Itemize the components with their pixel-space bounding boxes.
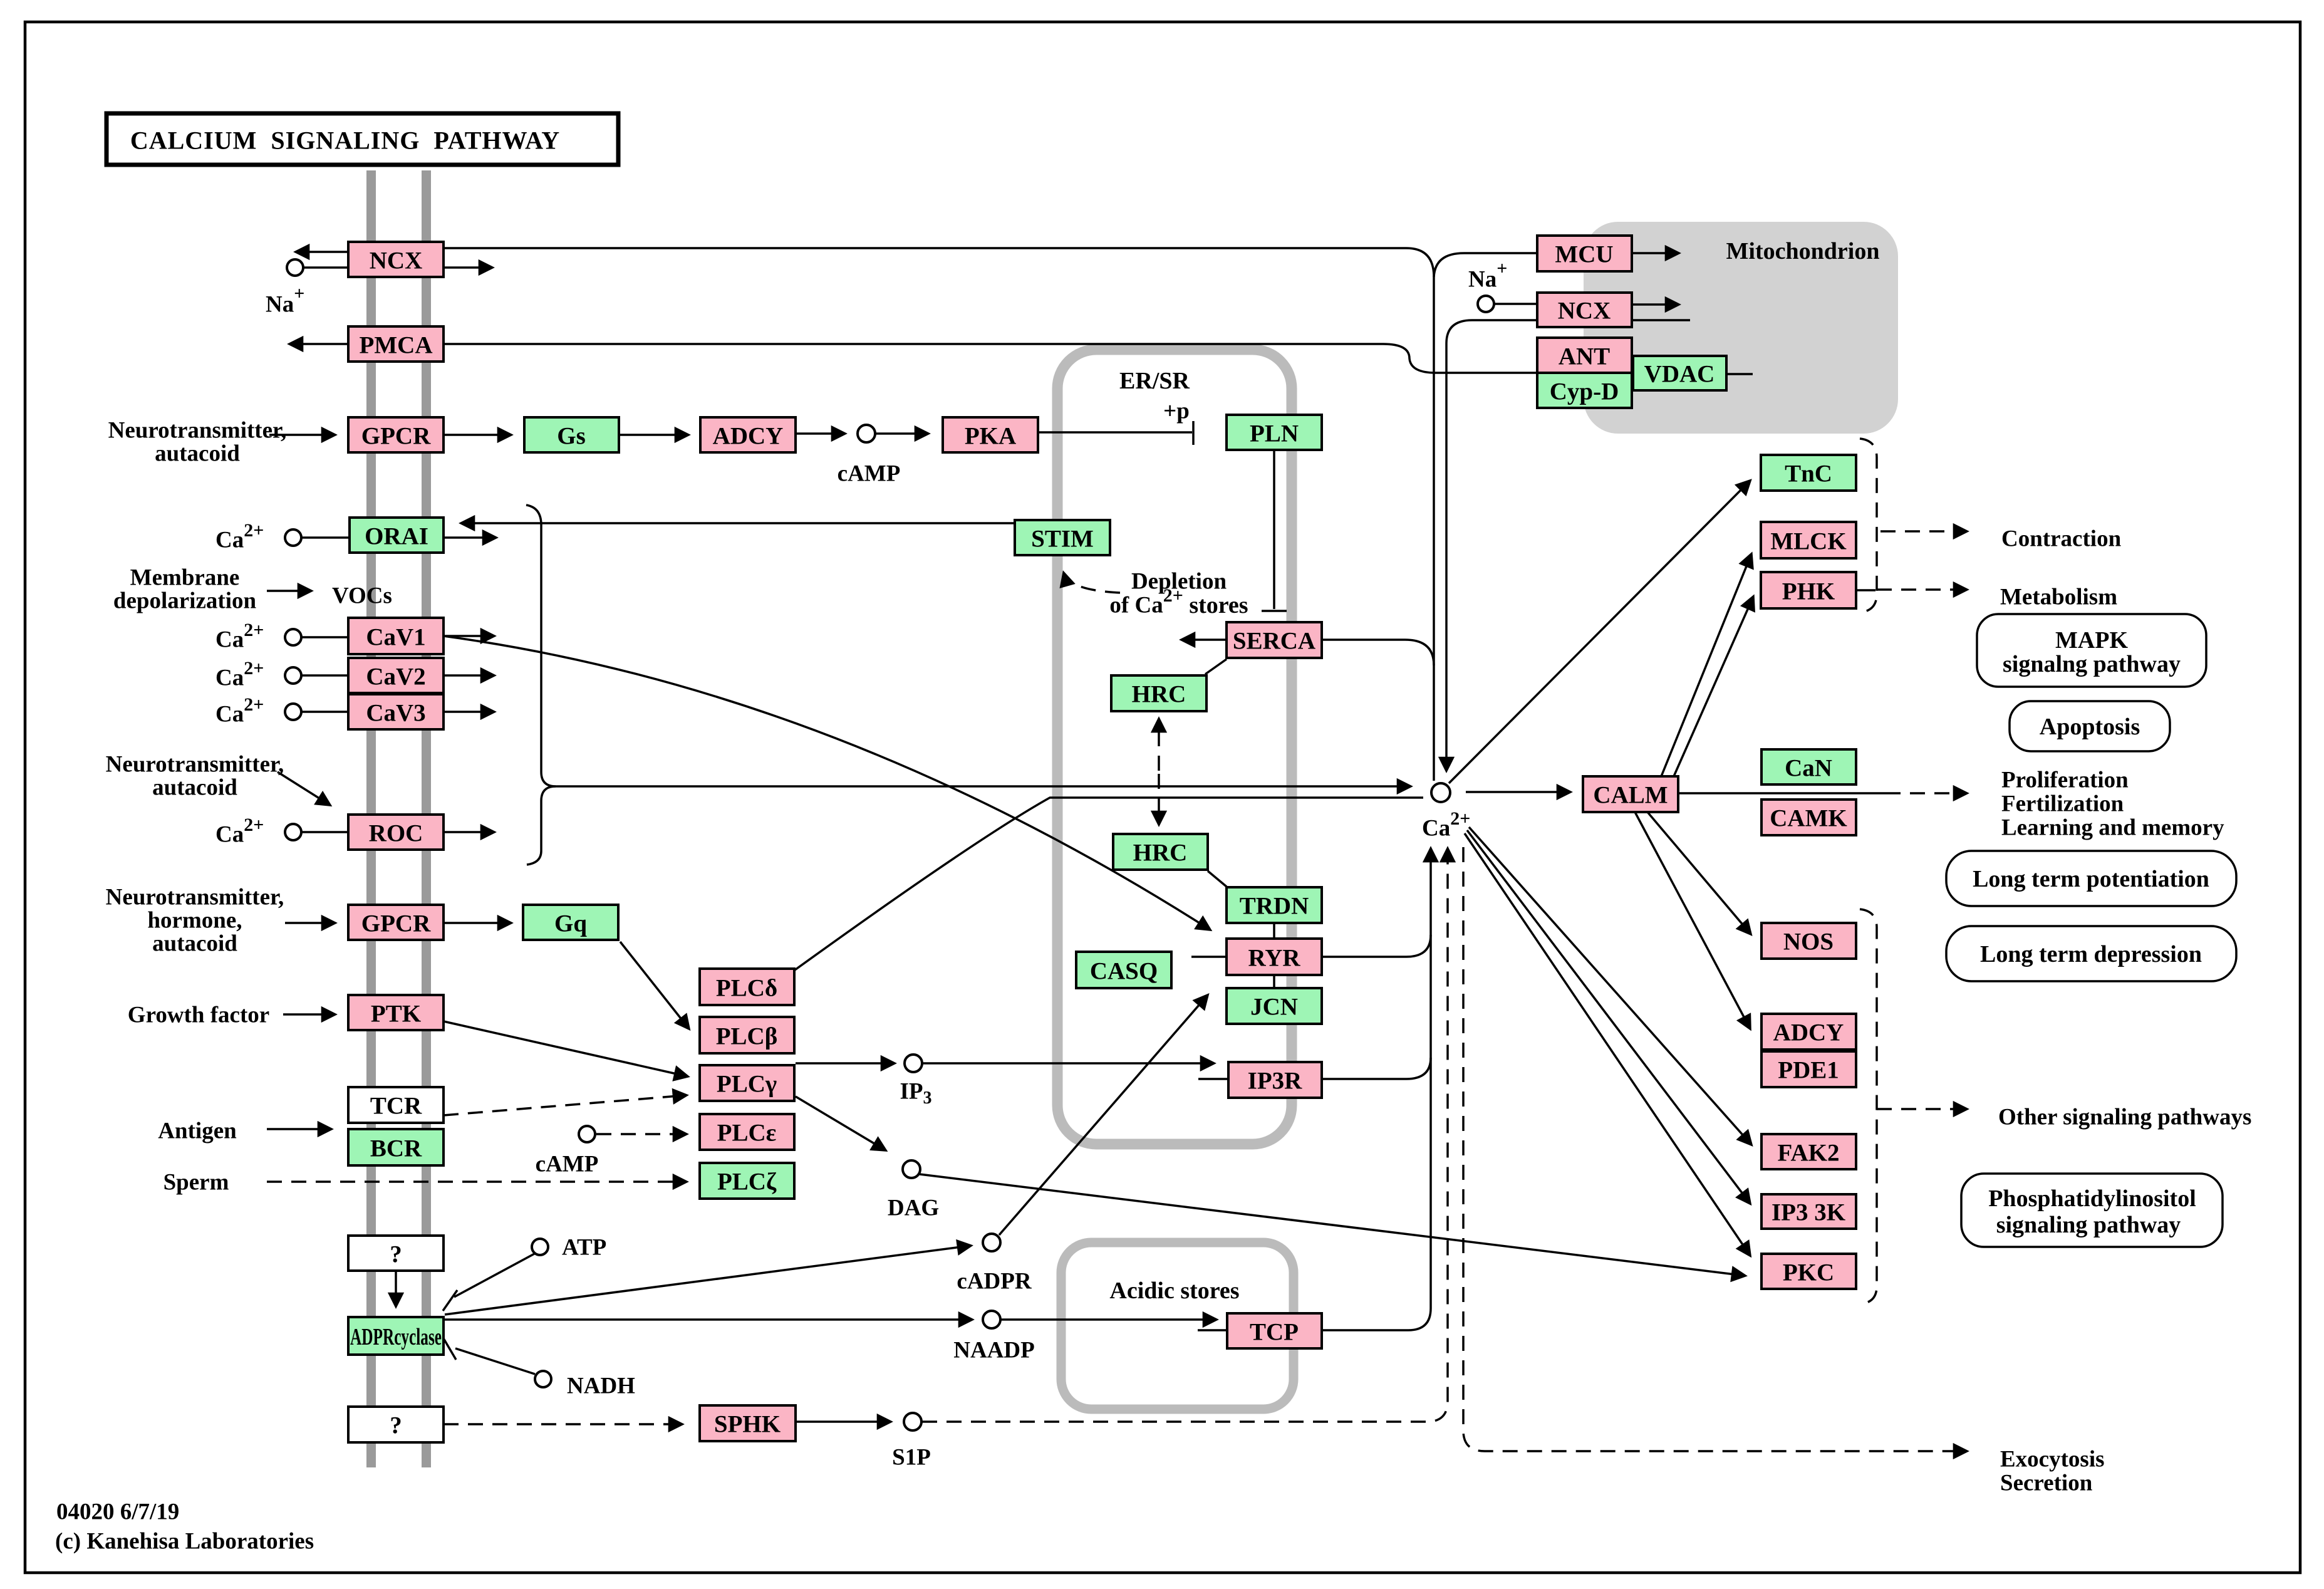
title box	[106, 113, 618, 165]
gene box IP3 3K	[1761, 1194, 1856, 1229]
svg-text:CAMK: CAMK	[1770, 805, 1847, 832]
gene box HRC upper	[1111, 675, 1206, 711]
svg-text:Ca2+: Ca2+	[215, 815, 264, 848]
svg-text:Sperm: Sperm	[163, 1170, 229, 1196]
gene box TRDN	[1227, 887, 1322, 923]
svg-text:TnC: TnC	[1785, 461, 1832, 487]
wire Ca circle into ORAI	[301, 536, 350, 539]
svg-text:Ca2+: Ca2+	[1422, 808, 1470, 841]
svg-text:Acidic stores: Acidic stores	[1109, 1278, 1239, 1304]
wire curly brace upper	[541, 772, 556, 786]
svg-text:NCX: NCX	[1558, 298, 1611, 325]
wire contraction bracket dashed	[1860, 439, 1877, 612]
gene box HRC lower	[1113, 834, 1208, 870]
svg-text:PKC: PKC	[1783, 1259, 1834, 1286]
gene box SPHK	[700, 1405, 796, 1441]
pathway box MAPK signaling	[1977, 614, 2206, 687]
wire HRC dashed link upper arrow	[1158, 719, 1160, 771]
svg-text:VOCs: VOCs	[332, 583, 392, 609]
wire IP3 circle to IP3R	[922, 1062, 1214, 1065]
gene box ADCY upper	[700, 417, 796, 452]
gene box RYR	[1227, 939, 1322, 975]
wire dashed arrow to Contraction	[1880, 530, 1967, 533]
wire PMCA return line to ANT/Cyp-D	[444, 344, 1537, 373]
svg-text:autacoid: autacoid	[152, 931, 237, 957]
svg-text:Phosphatidylinositol: Phosphatidylinositol	[1988, 1185, 2196, 1212]
gene box PMCA	[348, 326, 444, 362]
gene box PLN	[1227, 415, 1322, 450]
svg-text:Ca2+: Ca2+	[215, 520, 264, 553]
wire NCX plasma left arrow to extracellular	[296, 251, 348, 253]
svg-text:signalng pathway: signalng pathway	[2003, 651, 2181, 677]
circle Na+ at plasma NCX	[287, 259, 303, 276]
svg-text:Proliferation: Proliferation	[2001, 768, 2129, 793]
svg-text:NOS: NOS	[1783, 929, 1834, 956]
wire Gs to ADCY	[619, 434, 688, 436]
wire mito NCX lower stub	[1632, 319, 1690, 321]
svg-text:Neurotransmitter,: Neurotransmitter,	[108, 418, 287, 444]
wire CaV2 out arrow	[444, 674, 494, 677]
wire DAG to PKC	[920, 1174, 1745, 1276]
svg-text:(c) Kanehisa Laboratories: (c) Kanehisa Laboratories	[55, 1529, 314, 1555]
circle DAG compound	[903, 1160, 920, 1178]
wire RYR return merging	[1322, 935, 1431, 957]
wire dashed arrow to Other signaling pathways	[1877, 1108, 1967, 1110]
wire Gq to PLCbeta diagonal arrow	[620, 942, 689, 1029]
svg-text:cAMP: cAMP	[838, 461, 901, 487]
svg-text:CALM: CALM	[1593, 782, 1668, 809]
wire TCP left stub	[1198, 1329, 1227, 1331]
svg-text:Neurotransmitter,: Neurotransmitter,	[106, 885, 284, 910]
svg-text:IP3R: IP3R	[1248, 1068, 1303, 1095]
wire Ca node to IP3 3K	[1467, 830, 1750, 1204]
svg-text:?: ?	[390, 1412, 402, 1439]
svg-text:cADPR: cADPR	[957, 1269, 1032, 1295]
gene box CaV1	[348, 618, 444, 654]
svg-text:ADCY: ADCY	[713, 423, 784, 450]
circle Ca2+ at ROC	[285, 824, 301, 840]
svg-text:Neurotransmitter,: Neurotransmitter,	[106, 752, 284, 778]
gene box PTK	[348, 995, 444, 1030]
wire ORAI collector bracket top hook	[526, 505, 541, 772]
gene box NOS	[1761, 923, 1856, 959]
svg-text:PTK: PTK	[371, 1001, 422, 1028]
gene box PKC	[1761, 1254, 1856, 1289]
wire unknown receptor to ADPR cyclase arrow	[395, 1271, 397, 1306]
svg-text:FAK2: FAK2	[1778, 1140, 1840, 1167]
wire Ca circle into CaV3	[302, 711, 348, 713]
wire VDAC right stub	[1726, 373, 1753, 375]
svg-text:of Ca2+ stores: of Ca2+ stores	[1109, 585, 1248, 619]
wire depletion dashed hook to STIM	[1064, 573, 1120, 593]
wire CALM to MLCK	[1661, 554, 1751, 776]
svg-text:04020 6/7/19: 04020 6/7/19	[56, 1499, 179, 1525]
svg-text:Gq: Gq	[554, 910, 587, 937]
wire HRC2 TRDN connector	[1208, 871, 1227, 887]
circle cAMP compound	[858, 425, 875, 442]
wire curly brace lower	[527, 786, 556, 865]
wire TRDN RYR connector	[1273, 923, 1275, 939]
gene box ANT	[1537, 338, 1632, 373]
svg-text:CaV1: CaV1	[366, 624, 425, 651]
svg-text:PLCδ: PLCδ	[716, 975, 777, 1002]
wire GPCR1 to Gs	[444, 434, 511, 436]
circle IP3 compound	[905, 1055, 922, 1072]
wire Ca node dashed down to exocytosis line	[1463, 847, 1967, 1451]
gene box Cyp-D	[1537, 373, 1632, 408]
gene box PLCzeta	[700, 1163, 794, 1199]
wire CALM right solid segment	[1678, 792, 1886, 794]
gene box MLCK	[1761, 522, 1856, 558]
gene box FAK2	[1761, 1134, 1856, 1169]
gene box NCX plasma	[348, 242, 444, 277]
svg-text:ANT: ANT	[1559, 343, 1610, 370]
wire CALM to ADCY lower	[1635, 812, 1750, 1029]
gene box ROC	[348, 815, 444, 850]
circle Na+ at mito NCX	[1478, 296, 1494, 312]
wire Ca node to FAK2	[1469, 827, 1751, 1145]
svg-text:BCR: BCR	[370, 1135, 422, 1162]
svg-text:VDAC: VDAC	[1644, 361, 1715, 388]
gene box PDE1	[1761, 1051, 1856, 1087]
svg-text:S1P: S1P	[892, 1445, 931, 1471]
svg-text:SERCA: SERCA	[1233, 628, 1315, 655]
svg-text:Fertilization: Fertilization	[2001, 791, 2124, 817]
circle NADH compound	[535, 1371, 551, 1387]
wire RYR JCN connector	[1273, 975, 1275, 988]
wire NCX right short out arrow	[444, 266, 492, 269]
svg-text:Apoptosis: Apoptosis	[2040, 714, 2140, 740]
wire HRC SERCA connector	[1205, 659, 1227, 674]
gene box PLCbeta	[700, 1017, 794, 1053]
svg-text:PLCγ: PLCγ	[717, 1071, 777, 1098]
svg-text:HRC: HRC	[1133, 840, 1188, 867]
gene box TCR	[348, 1087, 444, 1123]
wire PLCdelta to Ca node curved	[795, 798, 1423, 970]
svg-text:GPCR: GPCR	[361, 423, 431, 450]
wire ROC out arrow	[444, 831, 494, 833]
svg-text:IP3: IP3	[900, 1079, 932, 1108]
svg-text:RYR: RYR	[1248, 945, 1300, 972]
svg-text:Cyp-D: Cyp-D	[1550, 378, 1619, 405]
plasma membrane bar 1	[366, 170, 376, 1467]
svg-text:PKA: PKA	[965, 423, 1016, 450]
wire hormone into GPCR2	[285, 922, 335, 924]
svg-text:IP3 3K: IP3 3K	[1772, 1199, 1846, 1226]
wire sperm dashed to PLCzeta	[267, 1180, 687, 1183]
svg-text:PLCζ: PLCζ	[717, 1169, 777, 1196]
pathway box Phosphatidylinositol signaling	[1961, 1174, 2223, 1247]
svg-text:ATP: ATP	[562, 1235, 606, 1261]
svg-text:Ca2+: Ca2+	[215, 620, 264, 653]
svg-text:CaV2: CaV2	[366, 664, 425, 690]
svg-text:NADH: NADH	[567, 1373, 635, 1399]
svg-text:ER/SR: ER/SR	[1119, 368, 1190, 394]
svg-text:Long term potentiation: Long term potentiation	[1973, 866, 2209, 892]
gene box CAMK	[1761, 800, 1856, 835]
svg-text:+p: +p	[1163, 399, 1190, 424]
gene box JCN	[1227, 988, 1322, 1024]
svg-text:Ca2+: Ca2+	[215, 694, 264, 727]
wire neurotransmitter into GPCR1	[269, 434, 335, 436]
wire TCR dashed to PLCgamma	[444, 1095, 687, 1115]
wire S1P dashed up to Ca node	[922, 848, 1448, 1422]
wire unknown receptor dashed to SPHK	[444, 1423, 682, 1425]
svg-text:PLN: PLN	[1250, 420, 1299, 447]
wire MCU out arrow inside mitochondrion	[1632, 252, 1679, 254]
svg-text:TCP: TCP	[1250, 1319, 1299, 1346]
gene box CALM	[1583, 776, 1678, 812]
svg-text:HRC: HRC	[1132, 681, 1186, 708]
wire Na+ circle to mito NCX	[1494, 303, 1537, 305]
svg-text:hormone,: hormone,	[147, 908, 242, 934]
wire membrane depolarization to VOCs	[267, 590, 311, 592]
pathway box Long term depression	[1946, 926, 2236, 981]
node Ca2+ central	[1431, 783, 1450, 802]
svg-text:CASQ: CASQ	[1090, 958, 1158, 985]
svg-text:autacoid: autacoid	[152, 775, 237, 801]
wire PTK to PLCgamma	[444, 1021, 688, 1076]
wire mito NCX return down to Ca node	[1446, 320, 1537, 771]
wire SPHK to S1P circle	[796, 1420, 891, 1423]
gene box PKA	[943, 417, 1038, 452]
wire SERCA right line merging into vertical	[1322, 640, 1434, 665]
circle S1P compound	[904, 1413, 921, 1430]
wire Ca node to CALM arrow	[1466, 791, 1570, 793]
svg-text:Learning and memory: Learning and memory	[2001, 815, 2224, 841]
gene box ORAI	[350, 518, 444, 553]
gene box TnC	[1761, 455, 1856, 491]
svg-text:TCR: TCR	[370, 1093, 422, 1120]
wire CASQ RYR stub	[1191, 956, 1227, 958]
wire CALM dashed to proliferation	[1886, 792, 1967, 794]
svg-text:ROC: ROC	[369, 820, 423, 847]
wire PMCA left arrow	[289, 343, 348, 345]
pathway box Long term potentiation	[1946, 851, 2236, 906]
svg-text:ADCY: ADCY	[1773, 1019, 1844, 1046]
wire PLN inhibition of SERCA	[1262, 450, 1287, 611]
Acidic stores membrane outline	[1061, 1243, 1294, 1409]
wire PHK stub to bracket	[1856, 589, 1875, 591]
circle cADPR compound	[983, 1234, 1000, 1251]
wire NADH to ADPR cyclase with tick	[444, 1338, 535, 1374]
gene box IP3R	[1228, 1062, 1322, 1098]
gene box GPCR lower	[348, 905, 444, 940]
wire IP3R return merging	[1322, 1058, 1431, 1079]
svg-text:PLCε: PLCε	[717, 1120, 777, 1147]
wire ATP to ADPR cyclase with tick	[443, 1254, 534, 1311]
svg-text:CaN: CaN	[1785, 755, 1832, 782]
wire cADPR to RYR	[999, 995, 1208, 1235]
svg-text:Long term depression: Long term depression	[1980, 941, 2202, 967]
circle NAADP compound	[983, 1311, 1000, 1328]
svg-text:Na+: Na+	[266, 283, 304, 318]
svg-text:Gs: Gs	[557, 423, 586, 450]
svg-text:ORAI: ORAI	[365, 523, 428, 550]
svg-text:Antigen: Antigen	[158, 1118, 237, 1144]
wire NAADP to TCP	[1000, 1318, 1216, 1321]
svg-text:Secretion: Secretion	[2000, 1471, 2093, 1496]
svg-text:depolarization: depolarization	[113, 588, 257, 614]
wire SERCA left arrow into ER	[1181, 638, 1227, 641]
gene box BCR	[348, 1129, 444, 1165]
svg-text:MCU: MCU	[1555, 241, 1613, 268]
gene box Gs	[524, 417, 619, 452]
wire Ca circle into ROC	[302, 831, 348, 833]
svg-text:PMCA: PMCA	[360, 332, 433, 359]
wire branch from NCX return to MCU	[1434, 253, 1537, 277]
wire CALM to NOS	[1647, 812, 1751, 934]
gene box CaN	[1761, 749, 1856, 784]
svg-text:STIM: STIM	[1031, 526, 1094, 553]
wire growth factor into PTK	[283, 1013, 335, 1016]
wire antigen arrow into TCR/BCR	[267, 1128, 331, 1130]
gene box PLCgamma	[700, 1065, 794, 1101]
gene box unknown receptor 1	[348, 1236, 444, 1271]
wire TCP return to Ca node	[1322, 848, 1431, 1330]
svg-text:autacoid: autacoid	[155, 441, 240, 467]
svg-text:PLCβ: PLCβ	[716, 1023, 778, 1050]
wire other signaling bracket dashed	[1860, 909, 1877, 1304]
svg-text:Other signaling pathways: Other signaling pathways	[1998, 1105, 2251, 1130]
svg-text:signaling pathway: signaling pathway	[1996, 1212, 2181, 1238]
wire Ca node to TnC	[1449, 481, 1750, 783]
svg-text:CALCIUM SIGNALING PATHWAY: CALCIUM SIGNALING PATHWAY	[130, 127, 560, 155]
gene box STIM	[1015, 520, 1110, 555]
gene box ADCY lower	[1761, 1014, 1856, 1050]
wire CaV3 out arrow	[444, 711, 494, 713]
svg-text:Growth factor: Growth factor	[128, 1003, 269, 1028]
wire IP3R left stub	[1198, 1078, 1228, 1080]
gene box ADPR cyclase	[348, 1317, 444, 1355]
wire Ca circle into CaV2	[302, 674, 348, 677]
svg-text:MAPK: MAPK	[2055, 627, 2129, 654]
gene box SERCA	[1227, 622, 1322, 658]
wire CALM to PHK	[1674, 597, 1753, 776]
gene box TCP	[1227, 1313, 1322, 1348]
wire PLCgamma to DAG	[796, 1097, 886, 1150]
wire Ca circle into CaV1	[302, 636, 348, 638]
wire brace to Ca node arrow	[556, 785, 1411, 788]
gene box NCX mito	[1537, 293, 1632, 327]
gene box Gq	[523, 905, 618, 940]
wire STIM to ORAI arrow	[461, 522, 1015, 524]
circle Ca2+ at CaV2	[285, 667, 301, 684]
wire cAMP circle to PKA	[875, 432, 928, 435]
gene box PLCdelta	[700, 969, 794, 1005]
circle Ca2+ at CaV1	[285, 629, 301, 645]
wire ADPR cyclase to cADPR	[445, 1246, 971, 1315]
gene box CaV2	[348, 658, 444, 693]
pathway box Apoptosis	[2010, 701, 2170, 751]
gene box PLCepsilon	[700, 1114, 794, 1150]
wire mito NCX upper out arrow	[1632, 303, 1679, 306]
svg-text:Ca2+: Ca2+	[215, 658, 264, 691]
svg-text:SPHK: SPHK	[714, 1411, 781, 1438]
svg-text:ADPRcyclase: ADPRcyclase	[350, 1324, 442, 1350]
svg-text:Exocytosis: Exocytosis	[2000, 1447, 2105, 1472]
wire PLC to IP3 circle	[796, 1062, 895, 1065]
svg-text:TRDN: TRDN	[1240, 893, 1309, 920]
wire Ca node to PKC	[1465, 833, 1750, 1256]
svg-text:NAADP: NAADP	[953, 1338, 1034, 1363]
svg-text:?: ?	[390, 1241, 402, 1268]
svg-text:cAMP: cAMP	[536, 1152, 599, 1177]
gene box CaV3	[348, 694, 444, 729]
wire ADPR cyclase to NAADP	[444, 1318, 972, 1321]
wire neurotransmitter diagonal into ROC	[278, 772, 330, 805]
wire CaV1 to RYR curved	[444, 636, 1210, 930]
svg-text:Contraction: Contraction	[2001, 526, 2122, 552]
gene box VDAC	[1633, 356, 1726, 390]
gene box GPCR upper	[348, 417, 444, 452]
gene box MCU	[1537, 236, 1632, 271]
svg-text:PDE1: PDE1	[1778, 1057, 1839, 1084]
plasma membrane bar 2	[422, 170, 431, 1467]
wire PKA phosphorylation line to PLN	[1038, 421, 1193, 445]
wire GPCR2 to Gq	[444, 922, 511, 924]
wire ADCY to cAMP circle	[796, 432, 845, 435]
wire Na+ circle into NCX	[303, 266, 348, 269]
wire HRC dashed link lower arrow	[1158, 774, 1160, 825]
svg-text:Mitochondrion: Mitochondrion	[1726, 238, 1880, 264]
circle cAMP near PLCepsilon	[579, 1126, 595, 1142]
svg-text:JCN: JCN	[1250, 994, 1298, 1021]
ER/SR membrane outline	[1057, 350, 1292, 1144]
svg-text:DAG: DAG	[888, 1196, 939, 1221]
circle Ca2+ at CaV3	[285, 704, 301, 720]
wire NCX return line to cytosolic Ca node	[444, 248, 1434, 781]
wire dashed arrow to Metabolism	[1877, 588, 1967, 591]
svg-text:PHK: PHK	[1782, 578, 1835, 605]
wire cAMP dashed to PLCepsilon	[596, 1133, 687, 1135]
gene box CASQ	[1076, 952, 1171, 988]
svg-text:GPCR: GPCR	[361, 910, 431, 937]
gene box PHK	[1761, 572, 1856, 608]
svg-text:NCX: NCX	[370, 247, 423, 274]
svg-text:Metabolism: Metabolism	[2000, 585, 2117, 610]
svg-text:CaV3: CaV3	[366, 700, 425, 727]
svg-text:MLCK: MLCK	[1770, 528, 1847, 555]
circle Ca2+ at ORAI	[285, 529, 301, 546]
gene box unknown receptor 2	[348, 1407, 444, 1442]
wire CaV1 out arrow	[444, 635, 494, 637]
wire ORAI out arrow	[444, 536, 496, 539]
svg-text:Membrane: Membrane	[130, 565, 240, 591]
circle ATP compound	[532, 1239, 548, 1255]
svg-text:Na+: Na+	[1468, 258, 1507, 293]
Mitochondrion body	[1584, 222, 1898, 434]
